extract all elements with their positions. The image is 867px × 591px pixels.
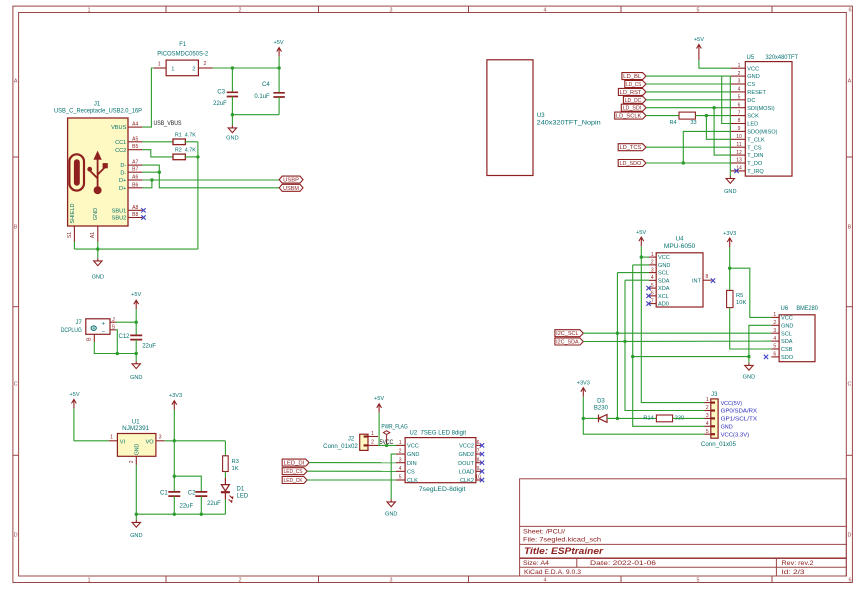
svg-text:GND: GND (724, 189, 736, 195)
svg-text:5: 5 (706, 429, 709, 435)
svg-text:B: B (848, 225, 852, 231)
IC U2 7SEG LED 8digit (405, 430, 476, 493)
wire LED_CS to U2 CS (307, 470, 396, 472)
junction GND rail U4 (631, 355, 634, 358)
no-connect J1 SBU2 (141, 215, 145, 219)
svg-text:LD_SDI: LD_SDI (623, 106, 642, 112)
junction U4 VCC (640, 255, 643, 258)
junction SDI/T_DIN (712, 106, 715, 109)
wire U2 GND down (391, 454, 396, 499)
svg-text:3: 3 (390, 578, 393, 584)
U4 pin 4 SDA (649, 275, 670, 284)
wire U1 VO to R3 (165, 440, 226, 442)
svg-text:DOUT: DOUT (458, 461, 474, 467)
wire SCL vertical (616, 273, 618, 419)
svg-text:VCC: VCC (747, 66, 759, 72)
wire LED_CK to U2 CLK (307, 479, 396, 481)
svg-text:240x320TFT_Nopin: 240x320TFT_Nopin (537, 121, 601, 127)
svg-text:MPU-6050: MPU-6050 (664, 244, 696, 250)
svg-text:2: 2 (399, 449, 402, 455)
svg-text:A5: A5 (132, 136, 138, 142)
svg-text:D: D (14, 533, 18, 539)
svg-text:7: 7 (651, 298, 654, 304)
svg-text:VCC: VCC (407, 444, 419, 450)
U5 pin 9 SDO(MISO) (731, 126, 778, 135)
wire LD_SCLK to R4 (646, 115, 679, 117)
junction rail C2 (200, 513, 203, 516)
svg-text:C: C (847, 382, 851, 388)
U4 pin 7 AD0 (649, 298, 669, 307)
svg-text:GND: GND (743, 375, 755, 381)
svg-text:1: 1 (158, 62, 161, 68)
svg-text:SCL: SCL (658, 271, 669, 277)
svg-text:R14: R14 (643, 415, 653, 421)
wire LD_CS to U5 CS (646, 83, 731, 85)
svg-text:GP0/SDA/RX: GP0/SDA/RX (721, 409, 758, 415)
ground below C3 (226, 115, 238, 142)
junction at C3 top (231, 66, 234, 69)
svg-text:R1: R1 (175, 132, 182, 138)
U5 pin 6 SDI(MOSI) (731, 102, 775, 111)
connector J1 USB_C_Receptacle_USB2.0_16P (54, 101, 142, 226)
svg-text:S1: S1 (67, 232, 73, 238)
svg-text:S: S (112, 325, 116, 331)
svg-text:10K: 10K (736, 300, 746, 306)
svg-text:Id: 2/3: Id: 2/3 (782, 570, 806, 576)
wire +5V to U1 VI (74, 440, 109, 442)
svg-text:1: 1 (738, 63, 741, 69)
svg-text:USB_VBUS: USB_VBUS (154, 121, 182, 127)
svg-text:9: 9 (477, 466, 480, 472)
svg-text:A6: A6 (132, 175, 138, 181)
ground below C12 (130, 354, 142, 381)
resistor R1 4.7K (173, 132, 196, 144)
svg-text:GND2: GND2 (458, 452, 474, 458)
wire LD_SDI to U5 SDI (646, 107, 731, 109)
svg-text:XCL: XCL (658, 294, 669, 300)
svg-text:VCC: VCC (781, 316, 793, 322)
wire J7 pin2 down (116, 330, 117, 354)
svg-text:LED_DI: LED_DI (284, 461, 305, 467)
svg-text:22uF: 22uF (213, 101, 227, 107)
U4 pin 8 INT (692, 274, 712, 284)
svg-text:J2: J2 (348, 437, 355, 443)
svg-text:CC2: CC2 (115, 148, 126, 154)
svg-text:VCC2: VCC2 (459, 444, 474, 450)
svg-text:AD0: AD0 (658, 302, 669, 308)
junction C1/C2 (173, 475, 176, 478)
U6 pin 2 GND (771, 320, 793, 329)
svg-text:SDO: SDO (781, 355, 794, 361)
svg-text:DC: DC (747, 98, 755, 104)
global label LED_CS (282, 468, 307, 476)
IC U6 BME280 (779, 306, 818, 361)
capacitor C2 22uF (188, 490, 221, 514)
J1 USB logo (69, 151, 107, 195)
no-connect J1 SBU1 (141, 208, 145, 212)
resistor R3 1K (223, 441, 239, 472)
svg-text:LED_CK: LED_CK (284, 478, 304, 484)
power +5V (C4) (274, 40, 284, 68)
svg-text:Rev: rev.2: Rev: rev.2 (782, 561, 815, 567)
svg-text:4: 4 (544, 578, 547, 584)
wire +5V to U5 VCC (699, 66, 731, 68)
svg-text:VCC: VCC (658, 255, 670, 261)
junction J7/+5V (135, 321, 138, 324)
U1 pin 3 (156, 435, 165, 441)
svg-text:C1: C1 (160, 490, 168, 496)
svg-text:1: 1 (371, 431, 374, 437)
svg-text:2: 2 (738, 71, 741, 77)
svg-text:J1: J1 (94, 101, 101, 107)
resistor R5 10K (727, 268, 747, 307)
svg-text:B: B (14, 225, 18, 231)
svg-text:2: 2 (706, 405, 709, 411)
svg-text:USBM: USBM (283, 186, 299, 192)
svg-text:T_IRQ: T_IRQ (747, 169, 764, 175)
svg-text:A: A (848, 79, 852, 85)
power +3V3 (U6/R5) (723, 231, 736, 268)
no-connect U4 INT (711, 278, 715, 282)
svg-text:5: 5 (697, 578, 700, 584)
svg-text:LD_RST: LD_RST (620, 90, 642, 96)
J1 pin S1 SHIELD (67, 203, 76, 241)
svg-text:T_CS: T_CS (747, 145, 762, 151)
capacitor C12 22uF (118, 322, 156, 353)
global label LD_TCS (618, 144, 646, 152)
U5 pin 11 T_CS (731, 142, 762, 151)
wire R4 to U5 SCK (695, 115, 731, 117)
U2 pin 5 CLK (396, 475, 418, 485)
wire +3V3 to J3 pin5 (583, 418, 704, 434)
svg-text:22uF: 22uF (180, 504, 194, 510)
U2 pin 3 DIN (396, 457, 417, 467)
U2 pin 1 VCC (396, 440, 419, 450)
svg-text:LED: LED (237, 494, 249, 500)
svg-text:Sheet: /PCU/: Sheet: /PCU/ (523, 528, 565, 535)
svg-text:CLK2: CLK2 (460, 478, 474, 484)
svg-text:Title: ESPtrainer: Title: ESPtrainer (524, 546, 603, 556)
svg-text:33: 33 (690, 120, 696, 126)
svg-text:U6: U6 (781, 306, 789, 312)
wire LD_BL branch to LED pin8 (722, 76, 731, 123)
global label USBM (279, 184, 303, 192)
svg-text:I2C_SDA: I2C_SDA (556, 340, 579, 346)
svg-text:9: 9 (738, 126, 741, 132)
svg-text:USBP: USBP (283, 178, 299, 184)
J7 pin 2 (110, 325, 116, 331)
wire LD_TCS to U5 T_CS (646, 146, 731, 148)
svg-text:0.1uF: 0.1uF (254, 94, 270, 100)
ground below U1 (130, 514, 142, 539)
J1 pin B8 SBU2 (112, 212, 143, 222)
svg-text:1: 1 (88, 8, 91, 14)
junction R2/pulldown (196, 155, 199, 158)
ground below U6 (743, 363, 755, 381)
resistor R2 4.7K (173, 148, 196, 160)
svg-text:5: 5 (651, 283, 654, 289)
J1 pin A6 D+ (119, 175, 142, 185)
svg-text:+: + (101, 322, 105, 328)
junction PWR_FLAG (385, 444, 388, 447)
U5 pin 7 SCK (731, 110, 759, 119)
wire LD_SDO to U5 T_DO (646, 162, 731, 164)
svg-text:+3V3: +3V3 (577, 381, 590, 387)
svg-text:KiCad E.D.A. 9.0.3: KiCad E.D.A. 9.0.3 (524, 570, 582, 576)
power +3V3 (U1) (169, 393, 182, 441)
svg-text:7: 7 (738, 110, 741, 116)
wire D+ B6 (142, 180, 152, 188)
svg-text:22uF: 22uF (142, 344, 156, 350)
U6 pin 5 CSB (771, 344, 792, 353)
power +5V (U5) (694, 37, 704, 66)
wire 5VCC to U2 VCC (378, 444, 396, 446)
global label LD_BL (622, 73, 646, 81)
svg-text:INT: INT (692, 278, 702, 284)
svg-text:12: 12 (736, 150, 742, 156)
svg-text:GND: GND (134, 443, 140, 455)
wire J7 pin3 down and gnd rail (94, 342, 136, 354)
svg-text:SCK: SCK (747, 114, 759, 120)
no-connect U4 AD0 (646, 301, 650, 305)
svg-text:U3: U3 (537, 113, 545, 119)
svg-text:11: 11 (736, 142, 741, 148)
U4 pin 2 GND (649, 260, 670, 269)
wire R5 to U6 CSB (730, 308, 772, 349)
U2 pin 2 GND (396, 449, 419, 459)
svg-text:2: 2 (371, 440, 374, 446)
svg-text:+5V: +5V (70, 392, 80, 398)
power +3V3 (D3) (577, 381, 590, 419)
svg-text:D1: D1 (237, 487, 245, 493)
U5 pin 13 T_DO (731, 158, 763, 167)
wire CC2 to R2 (142, 150, 173, 157)
wire LED_DI to U2 DIN (309, 462, 396, 464)
wire F1 pin2 to +5V rail (213, 67, 280, 69)
junction +3V3 D3 (582, 417, 585, 420)
global label LED_CK (282, 477, 307, 485)
svg-text:CC1: CC1 (115, 140, 126, 146)
svg-text:1: 1 (171, 67, 174, 73)
no-connect U2 pin 8 (480, 461, 484, 465)
svg-text:SDA: SDA (658, 278, 670, 284)
svg-text:LED: LED (747, 122, 758, 128)
svg-text:SCL: SCL (781, 331, 792, 337)
svg-text:U2: U2 (410, 430, 418, 436)
svg-text:1: 1 (110, 435, 113, 441)
svg-text:13: 13 (736, 158, 742, 164)
svg-text:SDO(MISO): SDO(MISO) (747, 130, 777, 136)
svg-text:8: 8 (477, 457, 480, 463)
svg-text:A4: A4 (132, 122, 138, 128)
wire U4 SCL left (617, 272, 649, 274)
U4 pin 3 SCL (649, 267, 669, 276)
no-connect U2 pin 6 (480, 443, 484, 447)
svg-text:4: 4 (773, 336, 776, 342)
U5 pin 14 T_IRQ (731, 166, 765, 175)
junction rail J7 a (116, 352, 119, 355)
junction SCK/T_CLK (705, 114, 708, 117)
wire I2C_SDA to U6 (583, 340, 771, 342)
svg-text:GND: GND (407, 452, 419, 458)
global label LD_RST (618, 88, 646, 96)
svg-text:U1: U1 (132, 420, 140, 426)
svg-text:VCC(5V): VCC(5V) (721, 401, 743, 407)
svg-text:LD_CS: LD_CS (626, 82, 642, 88)
global label I2C_SCL (555, 330, 583, 338)
svg-text:VBUS: VBUS (111, 125, 127, 131)
svg-text:3: 3 (738, 79, 741, 85)
wire SDI branch to T_DIN (714, 108, 731, 155)
wire branch to SDO(MISO) (683, 131, 731, 163)
svg-text:CS: CS (407, 469, 415, 475)
power +5V (U1) (70, 392, 80, 441)
resistor R4 33 (670, 112, 697, 126)
wire USB_VBUS: J1 VBUS to F1 pin1 (142, 68, 153, 127)
wire branch to C2 (174, 476, 201, 492)
junction VO/+3V3 (173, 439, 176, 442)
wire CC1 to R1 (142, 141, 173, 143)
svg-text:5: 5 (399, 475, 402, 481)
svg-text:C: C (14, 382, 18, 388)
svg-text:BME280: BME280 (796, 306, 818, 312)
svg-text:2: 2 (239, 8, 242, 14)
global label LD_DC (623, 96, 646, 104)
svg-text:−: − (101, 329, 105, 335)
global label LD_SCLK (615, 112, 646, 120)
svg-text:T_DO: T_DO (747, 161, 763, 167)
wire shield/gnd rail under J1 (74, 242, 197, 250)
svg-text:SHIELD: SHIELD (70, 203, 76, 223)
wire LD_RST to U5 RESET (646, 91, 731, 93)
no-connect U2 pin 9 (480, 469, 484, 473)
junction D+ (150, 178, 153, 181)
U5 pin 2 GND (731, 71, 760, 80)
global label LD_CS (625, 81, 646, 89)
global label LD_SDO (618, 160, 646, 168)
connector J7 DCPLUG (61, 319, 110, 336)
svg-text:4: 4 (544, 8, 547, 14)
U2 pin 9 LOAD (459, 466, 481, 476)
svg-text:GND: GND (385, 511, 397, 517)
svg-text:LD_TCS: LD_TCS (620, 145, 642, 151)
svg-text:GND: GND (781, 323, 793, 329)
svg-text:GND: GND (130, 533, 142, 539)
global label I2C_SDA (555, 338, 583, 346)
svg-text:320x480TFT: 320x480TFT (766, 55, 799, 61)
U5 pin 5 DC (731, 95, 755, 104)
svg-text:C4: C4 (262, 82, 270, 88)
svg-text:5: 5 (738, 95, 741, 101)
power +5V (J7) (131, 292, 141, 322)
svg-text:1: 1 (773, 312, 776, 318)
svg-text:NJM2391: NJM2391 (122, 426, 150, 432)
svg-text:2: 2 (651, 260, 654, 266)
svg-text:8: 8 (738, 118, 741, 124)
capacitor C4 0.1uF (254, 68, 284, 115)
U5 pin 8 LED (731, 118, 758, 127)
svg-text:+5V: +5V (694, 37, 704, 43)
J1 pin A7 D- (120, 160, 142, 170)
U2 pin 10 CLK2 (460, 475, 481, 485)
wire J7 pin1 to +5V (116, 321, 136, 323)
svg-text:B5: B5 (132, 144, 138, 150)
svg-text:+3V3: +3V3 (723, 231, 736, 237)
svg-text:J: J (112, 317, 115, 323)
global label LED_DI (282, 459, 309, 467)
svg-text:VO: VO (146, 439, 155, 445)
svg-text:LD_DC: LD_DC (625, 98, 642, 104)
svg-text:A7: A7 (132, 160, 138, 166)
U6 pin 3 SCL (771, 328, 792, 337)
wire +3V3 to U6 VCC (730, 268, 772, 317)
wire +5V vertical to J3 (641, 257, 704, 403)
J1 pin A8 SBU1 (112, 205, 143, 215)
svg-text:7SEG LED 8digit: 7SEG LED 8digit (421, 430, 467, 436)
U5 pin 4 RESET (731, 87, 767, 96)
junction rail C1 (173, 513, 176, 516)
global label LD_SDI (621, 104, 646, 112)
svg-text:GND: GND (747, 74, 759, 80)
IC U5 320x480TFT (745, 55, 798, 176)
U3 240x320TFT_NoPin outline (487, 60, 601, 176)
title block texts (523, 528, 814, 576)
svg-text:D+: D+ (119, 186, 126, 192)
svg-text:USB_C_Receptacle_USB2.0_16P: USB_C_Receptacle_USB2.0_16P (54, 109, 142, 115)
J2 pin 1 (364, 431, 378, 438)
wire SDA vertical (625, 280, 705, 410)
svg-text:+5V: +5V (636, 230, 646, 236)
svg-text:22uF: 22uF (207, 501, 221, 507)
U6 pin 4 SDA (771, 336, 792, 345)
svg-text:D: D (847, 533, 851, 539)
wire +3V3 down through C1 (173, 441, 175, 492)
J1 pin B5 CC2 (115, 144, 142, 154)
svg-text:3: 3 (651, 267, 654, 273)
svg-text:3: 3 (159, 435, 162, 441)
wire GND vertical (633, 265, 705, 426)
svg-text:U4: U4 (676, 237, 684, 243)
svg-text:+3V3: +3V3 (169, 393, 182, 399)
resistor R14 330 (643, 415, 684, 422)
wire U5 GND pin to ground (729, 76, 731, 176)
svg-text:RESET: RESET (747, 90, 766, 96)
svg-text:7segLED-8digit: 7segLED-8digit (419, 487, 466, 493)
wire GND rail to U6 (633, 356, 749, 358)
wire U4 GND left (633, 264, 649, 266)
svg-text:6: 6 (849, 8, 852, 14)
svg-text:10: 10 (736, 134, 742, 140)
wire D- A7 (142, 165, 159, 172)
J1 pin B6 D+ (119, 182, 142, 192)
wire C3/C4 bottoms (232, 114, 279, 116)
U1 pin 2 (129, 456, 136, 465)
svg-text:SDI(MOSI): SDI(MOSI) (747, 106, 774, 112)
svg-text:2: 2 (773, 320, 776, 326)
svg-text:Date: 2022-01-06: Date: 2022-01-06 (590, 561, 657, 567)
U2 pin 8 DOUT (458, 457, 481, 467)
svg-text:4: 4 (738, 87, 741, 93)
junction I2C_SDA (623, 340, 626, 343)
svg-text:1: 1 (706, 397, 709, 403)
svg-text:1: 1 (651, 252, 654, 258)
J3 pin 2 GP0/SDA/RX (705, 405, 758, 415)
LED D1 (221, 472, 249, 515)
svg-text:B8: B8 (132, 212, 138, 218)
J3 pin 5 VCC(3.3V) (705, 429, 750, 439)
svg-text:4.7K: 4.7K (185, 148, 196, 154)
U6 pin 6 SDO (771, 352, 793, 361)
